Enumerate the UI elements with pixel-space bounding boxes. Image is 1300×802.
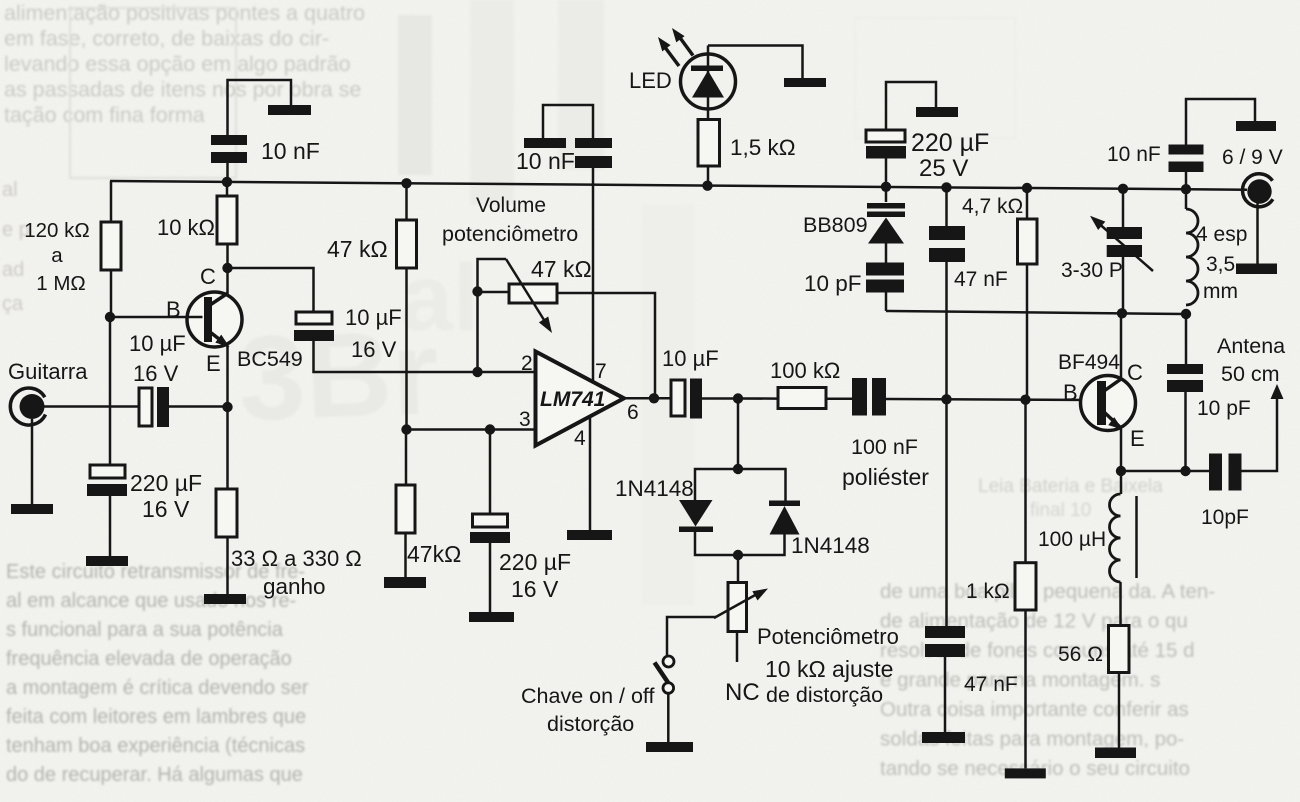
label R10 value [1058,643,1103,666]
svg-text:1N4148: 1N4148 [791,533,870,558]
label D3 [791,533,870,558]
svg-text:ça: ça [2,293,24,315]
node pin6 junction [649,393,659,403]
node pin3 junction 2 [485,424,495,434]
svg-text:al em alcance que usado nos re: al em alcance que usado nos re- [6,590,296,612]
node base row R8 [1020,395,1030,405]
svg-text:distorção: distorção [547,712,634,736]
trimmer arrow [1090,216,1153,271]
ground G5 [384,577,426,588]
svg-text:E: E [206,351,221,376]
ground G2 [11,504,53,514]
transistor Q2 BF494 body [1081,376,1136,431]
label antenna [1217,334,1285,386]
node rail R4 [401,178,411,188]
capacitor C13 47nF [925,626,965,657]
label C4 value [345,305,402,362]
resistor R7 100k [778,388,826,409]
node clipper top [733,464,743,474]
wire P1 left terminal [478,291,510,294]
svg-text:220 µF: 220 µF [499,549,571,575]
svg-text:Chave on / off: Chave on / off [521,684,654,708]
wire C2 to emitter node [169,405,228,408]
resistor R9 1k [1015,563,1036,610]
wire C7 to node [702,397,738,400]
svg-text:4,7 kΩ: 4,7 kΩ [962,195,1023,218]
resistor R5 47k [396,485,415,533]
wire P2 NC [736,632,739,663]
svg-text:final 10: final 10 [1030,500,1091,521]
label C14 value [1197,397,1251,420]
svg-text:47kΩ: 47kΩ [407,541,461,567]
wire C12 to rail [1185,172,1188,189]
svg-text:10 µF: 10 µF [662,346,719,371]
wire switch ground [667,694,670,743]
wire C9 to rail [885,159,888,188]
ground G9 [784,78,826,87]
wire P1 bracket [478,259,507,292]
ground G14 [1095,748,1136,759]
node rail R6 [702,181,712,191]
transistor Q1 BC549 body [187,292,242,347]
wire LED column [707,46,710,121]
node rail C9 [881,182,891,192]
ground G15 [1236,121,1276,131]
varicap D4 BB809 [867,203,905,244]
node rail TC1 [1118,184,1128,194]
svg-text:Guitarra: Guitarra [8,359,88,384]
svg-text:feita com leitores em lambres: feita com leitores em lambres que [6,706,306,728]
LED arrows [658,28,693,66]
svg-text:10 µF: 10 µF [345,305,402,330]
wire R7 to C8 [826,398,852,401]
capacitor C14 10pF [1167,364,1203,392]
node rail L1 [1181,184,1191,194]
label TC1 value [1061,259,1123,282]
wire Q1 collector [226,268,229,294]
svg-text:100 kΩ: 100 kΩ [770,358,840,383]
ground G8 [524,138,566,148]
label C11 value [954,268,1008,291]
label LED [629,68,672,93]
svg-text:Volume: Volume [476,194,546,217]
wire RF line [886,311,1186,314]
label C12 value [1107,143,1161,166]
svg-text:220 µF: 220 µF [130,470,202,496]
wire C14 bottom [1184,392,1187,471]
node rail R2 [222,177,232,187]
diode D3 1N4148 [769,501,800,535]
node base junction [105,312,115,322]
svg-text:2: 2 [521,352,533,375]
capacitor C10 10pF [866,263,904,293]
svg-text:BB809: BB809 [803,213,868,237]
node RF L1 [1181,309,1191,319]
svg-text:10 µF: 10 µF [129,331,186,356]
svg-text:B: B [166,297,181,322]
node diode tap [733,393,743,403]
capacitor C5 220uF [470,514,510,543]
svg-text:C: C [200,264,216,289]
wire R8 column [1026,188,1029,400]
label C1 value [261,138,320,164]
wire clipper top right [738,469,786,501]
node emitter junction [222,402,232,412]
wire 120k column [110,181,111,466]
ground G11 [916,107,958,117]
svg-text:16 V: 16 V [142,496,190,522]
node clipper bottom [733,550,743,560]
ground G12 [922,732,965,743]
svg-text:47 nF: 47 nF [954,268,1008,291]
svg-text:16 V: 16 V [351,337,397,362]
ground G1 [268,105,311,115]
svg-text:10 pF: 10 pF [1197,397,1251,420]
svg-text:3-30 P: 3-30 P [1061,259,1123,282]
wire LED to ground [708,46,803,79]
label C13 value [964,673,1018,696]
wire pin4 column [589,417,592,531]
svg-text:LM741: LM741 [540,388,605,411]
svg-text:al: al [2,179,18,201]
svg-text:tenham boa experiência (técnic: tenham boa experiência (técnicas [6,735,305,757]
wire C5 ground [489,543,492,612]
label P2 name [757,624,899,707]
label Q2 pins [1063,360,1145,451]
svg-text:ganho: ganho [263,574,326,599]
svg-text:10 nF: 10 nF [261,138,320,164]
wire C4 to pin2 [314,341,536,372]
svg-text:10 nF: 10 nF [1107,143,1161,166]
svg-text:7: 7 [595,360,607,383]
label R9 value [966,580,1010,603]
inductor L1 4 esp [1186,209,1198,305]
capacitor C8 100nF [852,378,886,416]
svg-text:a: a [51,244,63,267]
capacitor C9 220uF [866,130,906,159]
capacitor C6 10nF [575,138,612,168]
switch S1 [655,656,675,693]
svg-text:alimentação positivas pontes a: alimentação positivas pontes a quatro [4,1,365,25]
label C15 value [1201,506,1249,529]
capacitor C11 47nF [929,226,965,262]
label U1 pins [519,352,639,450]
svg-text:4 esp: 4 esp [1196,223,1247,246]
svg-text:E: E [1130,426,1145,451]
trimmer TC1 3-30p [1107,227,1142,257]
label R4 value [327,236,388,262]
svg-text:B: B [1063,380,1078,405]
svg-text:33 Ω a 330 Ω: 33 Ω a 330 Ω [231,546,362,571]
svg-text:6 / 9 V: 6 / 9 V [1222,146,1283,169]
svg-text:a montagem é crítica devendo s: a montagem é crítica devendo ser [6,677,309,699]
node emitter junction Q2 [1116,466,1126,476]
resistor R3 33-330 [216,489,237,537]
svg-text:do de recuperar. Há algumas qu: do de recuperar. Há algumas que [6,764,303,786]
capacitor C12 10nF [1169,145,1204,173]
wire R4 column [405,183,408,430]
ground G6 [469,612,514,622]
label NC [725,679,760,706]
wire pin7 column [592,168,595,382]
wire R3 to ground [226,537,229,594]
wire R9 column [1024,400,1027,563]
ground G10 [646,742,693,752]
svg-text:47 nF: 47 nF [964,673,1018,696]
wire Q2 collector [1120,313,1123,379]
wire R9 ground [1024,610,1027,768]
wiper arrow P1 [506,259,552,333]
label R7 value [770,358,840,383]
svg-text:10 kΩ: 10 kΩ [157,215,215,240]
label R6 value [730,135,796,160]
LED D1 [681,54,736,109]
label C9 value [911,129,989,182]
resistor R2 10k [217,196,237,244]
capacitor C1 10nF [211,135,247,182]
svg-text:de distorção: de distorção [766,683,883,707]
ground G16 [1236,264,1277,275]
svg-text:100 nF: 100 nF [851,435,918,459]
ground G7 pin4 [567,530,612,540]
wire tap down [737,399,740,470]
label P1 name [442,194,578,246]
svg-text:47 kΩ: 47 kΩ [531,256,592,282]
label P1 value [531,256,592,282]
ground G4 [204,594,246,604]
op-amp U1 LM741 [536,352,625,446]
label Q1 pins [166,264,221,376]
wire R5 ground [404,533,407,577]
svg-text:120 kΩ: 120 kΩ [24,219,89,242]
label R5 value [407,541,461,567]
wire C5 column [489,430,492,515]
svg-text:3: 3 [519,408,531,431]
wire J1 to C2 [44,405,139,408]
label C8 value [842,435,929,490]
wire C1 to ground [228,80,292,135]
svg-text:56 Ω: 56 Ω [1058,643,1103,666]
capacitor C4 10uF [294,312,334,341]
svg-text:220 µF: 220 µF [911,129,989,157]
svg-text:BF494: BF494 [1058,351,1120,374]
svg-text:Outra coisa importante conferi: Outra coisa importante conferir as [880,698,1189,721]
wire C14 top [1185,314,1188,364]
label S1 [521,684,654,736]
svg-text:10 nF: 10 nF [516,148,575,174]
capacitor C2 10uF input [139,387,169,427]
svg-text:BC549: BC549 [237,347,303,371]
wire C13 column [945,399,948,626]
svg-text:100 µH: 100 µH [1038,528,1106,551]
wire J2 ground [1256,203,1259,265]
wire emitter to R3 [226,407,229,489]
resistor R6 1.5k [698,120,720,167]
node pin2 junction [472,367,482,377]
svg-text:1 MΩ: 1 MΩ [36,272,86,295]
wiper arrow P2 [714,589,768,619]
wire clipper bottom right [738,535,785,556]
svg-text:10pF: 10pF [1201,506,1249,529]
svg-text:47 kΩ: 47 kΩ [327,236,388,262]
label C10 value [804,271,862,296]
wire Q1 emitter [226,346,229,407]
node P1 left [472,286,482,296]
antenna arrow [1271,384,1284,399]
svg-text:em fase, correto, de baixas do: em fase, correto, de baixas do cir- [4,27,329,51]
label J2 [1222,146,1283,169]
svg-text:10 kΩ ajuste: 10 kΩ ajuste [765,656,893,682]
svg-text:poliéster: poliéster [842,464,929,490]
capacitor C3 220uF [87,465,127,496]
svg-text:3,5: 3,5 [1206,253,1235,276]
wire V+ supply rail [110,181,1247,190]
resistor R8 4.7k [1018,219,1038,264]
diode D2 1N4148 [679,500,713,532]
capacitor C7 10uF output [671,379,702,419]
wire C15 to antenna [1242,397,1278,471]
wire node to R7 [738,397,778,400]
wire L2 top [1120,471,1123,494]
label input [8,359,88,384]
svg-text:LED: LED [629,68,672,93]
wire R2 column [226,182,229,268]
label D4 [803,213,868,237]
svg-text:NC: NC [725,679,760,706]
node C14 junction [1180,466,1190,476]
connector J2 battery [1243,174,1273,207]
svg-text:ad: ad [2,259,24,281]
wire C8 to Q2 base [886,399,1097,400]
wire P1 to pin2 [476,292,479,372]
svg-text:10 pF: 10 pF [804,271,862,296]
svg-text:16 V: 16 V [511,576,559,602]
label R2 value [157,215,215,240]
wire J1 ground [31,419,34,504]
wire emitter row [1121,470,1209,473]
wire Q2 emitter [1120,429,1123,471]
node collector junction [222,263,232,273]
wire clipper top left [695,469,738,500]
label C6 value [516,148,575,174]
svg-text:6: 6 [627,401,639,424]
node rail R8 [1022,183,1032,193]
node pin3 junction [401,424,411,434]
wire R5 column [405,430,408,486]
wire C12 to ground [1186,99,1255,145]
wire P1 right to output [557,293,655,398]
resistor R10 56 [1109,626,1130,673]
label R1 value [24,219,89,295]
resistor R1 120k-1M [101,222,121,270]
label R8 value [962,195,1023,218]
wire rail to D4 [885,187,888,202]
resistor R4 47k [397,220,417,268]
label C2 value [129,331,186,386]
wire L2 to R10 [1119,582,1122,626]
svg-text:frequência elevada de operação: frequência elevada de operação [6,648,292,670]
svg-text:16 V: 16 V [133,361,179,386]
svg-text:tação com fina forma: tação com fina forma [4,103,205,127]
ground G13 [1005,768,1046,778]
wire C10 down [885,293,888,312]
wire C9 to ground [886,82,936,129]
svg-text:Potenciômetro: Potenciômetro [757,624,899,649]
svg-text:mm: mm [1203,280,1238,303]
svg-text:s funcional para a sua potên: s funcional para a sua potência [6,619,284,641]
svg-text:Antena: Antena [1217,334,1285,358]
label C3 value [130,470,202,522]
wire D4 to C10 [885,244,888,263]
ground G3 [86,556,128,566]
svg-text:25 V: 25 V [919,155,968,182]
wire C3 to ground [109,496,112,556]
svg-text:de uma boa pilha pequena da. A: de uma boa pilha pequena da. A ten- [880,580,1215,603]
label Q1 type [237,347,303,371]
wire C11 column [945,187,948,399]
svg-text:1 kΩ: 1 kΩ [966,580,1010,603]
node rail C11 [941,182,951,192]
svg-text:as passadas de itens nos por o: as passadas de itens nos por obra se [4,78,361,102]
svg-text:Leia Bateria e Baixela: Leia Bateria e Baixela [978,476,1163,497]
svg-text:1N4148: 1N4148 [615,476,694,501]
label R3 value [231,546,362,599]
wire C13 ground [944,657,947,732]
label D2 [615,476,694,501]
inductor L2 100uH [1110,494,1137,582]
wire clipper bottom left [695,532,738,555]
wire pin3 row [407,428,536,431]
wire Q1 base [110,316,203,319]
wire L1 top [1185,189,1188,209]
svg-text:potenciômetro: potenciômetro [442,222,578,246]
wire R10 ground [1118,673,1121,748]
label L2 value [1038,528,1106,551]
label C5 value [499,549,571,602]
wire pin6 [624,397,671,400]
wire C6 loop [543,105,593,138]
capacitor C15 10pF antenna [1209,454,1242,491]
connector J1 guitar jack [10,388,45,425]
label C7 value [662,346,719,371]
label L1 value [1196,223,1247,303]
svg-text:4: 4 [574,427,586,450]
wire to P2 [737,555,740,583]
node RF TC1 [1117,308,1127,318]
svg-text:C: C [1127,360,1143,385]
wire wiper to switch [667,617,716,656]
wire collector to C4 [228,268,314,312]
svg-text:levando essa opção em algo pad: levando essa opção em algo padrão [4,52,351,76]
node base row C11 [941,394,951,404]
potentiometer P1 body [509,284,557,303]
wire TC1 column [1122,189,1125,313]
label Q2 type [1058,351,1120,374]
wire R6 to rail [707,166,710,186]
potentiometer P2 body [728,583,747,632]
svg-text:50 cm: 50 cm [1221,362,1280,386]
svg-text:1,5 kΩ: 1,5 kΩ [730,135,796,160]
